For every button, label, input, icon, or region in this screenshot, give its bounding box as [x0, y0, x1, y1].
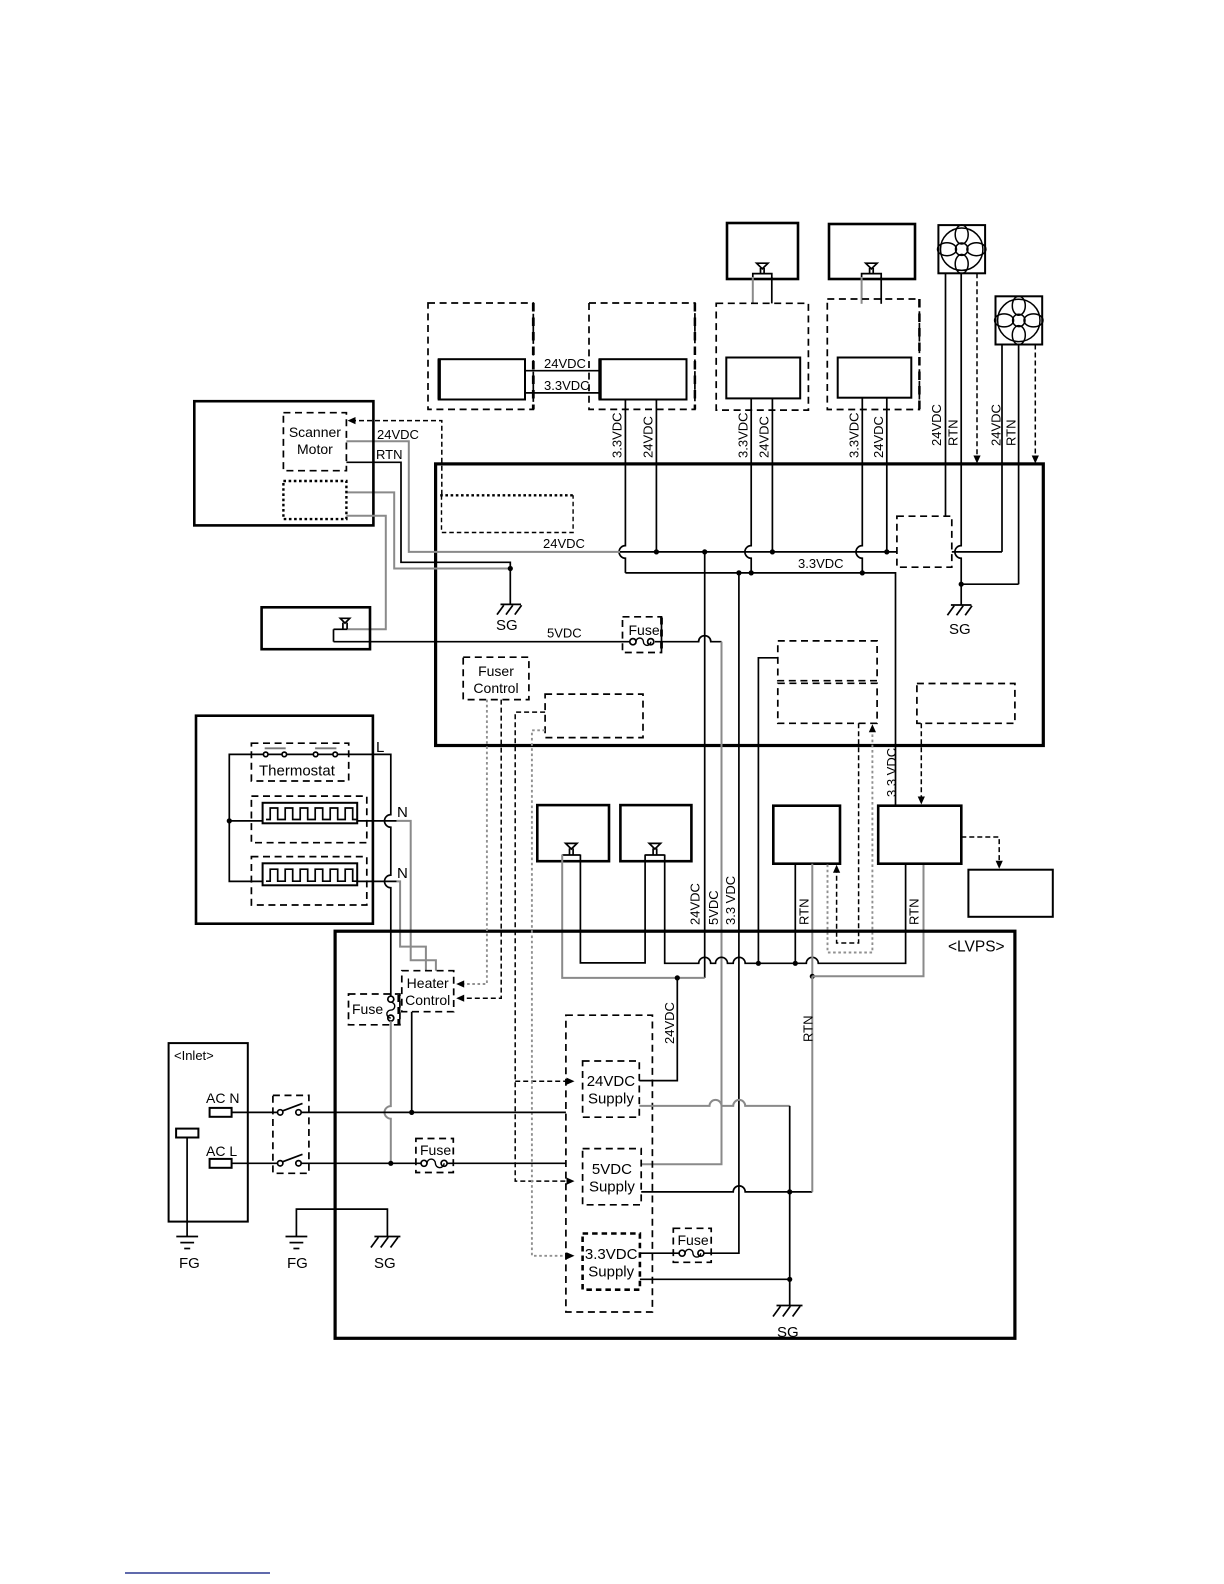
scanner unit box — [194, 401, 373, 525]
interlock box M2 — [620, 805, 691, 861]
switch dashed box — [273, 1095, 309, 1173]
connector box M3 — [773, 806, 840, 864]
svg-text:24VDC: 24VDC — [688, 883, 703, 925]
svg-text:SG: SG — [949, 621, 971, 638]
arrow into scanner motor — [348, 417, 356, 424]
junction scanner SG — [508, 566, 513, 571]
connector symbol CN-P — [340, 618, 349, 623]
wire 24VDC supply output — [639, 978, 677, 1081]
heavy dashed edge (B2 right) — [694, 303, 697, 409]
5VDC supply dashed box — [583, 1149, 642, 1205]
heater lamp 1 dashed box — [251, 796, 366, 843]
svg-text:Thermostat: Thermostat — [259, 763, 336, 780]
junction 3.3bus/B4 — [860, 570, 865, 575]
wire M1 24VDC (gray) — [562, 855, 705, 978]
main controller board box — [436, 464, 1044, 746]
board B1 inner — [439, 359, 525, 399]
dashed wire M4 to M5 — [961, 837, 999, 863]
wire 24VDC to LVPS (vertical) — [704, 552, 706, 978]
wire B1-B2 24VDC — [525, 370, 600, 372]
24VDC supply dashed box — [583, 1061, 640, 1117]
fan driver dashed box — [897, 516, 952, 567]
wire fan2 RTN link — [961, 583, 1018, 585]
svg-text:3.3 VDC: 3.3 VDC — [884, 748, 899, 797]
svg-text:Fuse: Fuse — [352, 1001, 383, 1017]
fan FAN1 frame — [938, 225, 985, 273]
heater2 N wire (gray) — [397, 881, 426, 970]
ground FG (chassis) — [286, 1237, 308, 1249]
dashed unit box B1 (far left) — [428, 303, 533, 409]
svg-text:24VDC: 24VDC — [544, 356, 586, 371]
3.3VDC supply dashed box — [583, 1234, 640, 1290]
svg-text:5VDC: 5VDC — [592, 1161, 632, 1178]
svg-text:24VDC: 24VDC — [757, 416, 772, 458]
svg-text:N: N — [397, 804, 408, 821]
wire B1-B2 3.3VDC — [525, 392, 600, 394]
wire J2 to unit B3 (gray) — [861, 277, 863, 304]
wire 24VDC bus with hops — [620, 551, 897, 553]
wire J2 to unit B3 (black) — [880, 277, 882, 304]
AC L terminal — [210, 1159, 232, 1168]
board B4 inner — [838, 358, 912, 398]
wire 5VDC — [334, 636, 722, 642]
wire 5VDC to LVPS (vertical gray) — [641, 642, 721, 1165]
dashed wire M3 to stacked-box (gray dotted) — [828, 729, 873, 953]
svg-text:RTN: RTN — [946, 420, 961, 446]
svg-text:5VDC: 5VDC — [706, 890, 721, 925]
heater lamp 2 dashed box — [251, 857, 366, 905]
junction SG fans — [959, 582, 964, 587]
wire 3.3VDC supply return — [640, 1278, 790, 1280]
wire FAN1 24VDC — [945, 273, 947, 516]
wire RTN vertical (gray) — [811, 976, 813, 1192]
svg-text:<Inlet>: <Inlet> — [174, 1048, 214, 1063]
switch SW-L — [278, 1154, 303, 1166]
svg-text:SG: SG — [496, 617, 518, 634]
inlet earth terminal — [176, 1129, 198, 1138]
stacked dashed box lower — [778, 683, 877, 723]
svg-text:N: N — [397, 865, 408, 882]
dashed unit box B2 — [589, 303, 695, 409]
wire 24VDC bus right of fan-driver box — [952, 551, 1002, 553]
arrow into 3.3VDC supply — [567, 1252, 575, 1259]
wire B2 24VDC down — [655, 400, 657, 552]
fuse F3 symbol — [679, 1249, 704, 1257]
wire FAN1 RTN — [960, 273, 962, 464]
dashed ctrl wire engine to heater-ctrl — [461, 700, 501, 999]
dashed ctrl wire fuser-ctrl to heater-ctrl (gray) — [461, 700, 487, 984]
heater-ctrl to ACN wire — [411, 1012, 413, 1113]
svg-text:RTN: RTN — [801, 1016, 816, 1042]
junction 24bus/B3 — [770, 549, 775, 554]
fuser internal left wire — [229, 754, 262, 881]
heater2 output wire — [357, 880, 396, 882]
svg-text:3.3VDC: 3.3VDC — [610, 412, 625, 458]
wire M1-M2 series link — [580, 855, 645, 963]
wire M3 return (gray) — [811, 864, 813, 977]
wire to heater1 — [229, 820, 262, 822]
dashed ctrl wire video box to M4 — [920, 723, 922, 799]
dashed wire stacked-box to M3 — [837, 723, 859, 943]
junction RTN/M3 — [793, 961, 798, 966]
svg-text:3.3VDC: 3.3VDC — [798, 556, 844, 571]
wire B2 3.3VDC down — [619, 400, 625, 573]
fuse F4 dashed box — [416, 1139, 453, 1173]
wire FAN2 24VDC — [1001, 345, 1003, 552]
junction ACL/fuser-L — [388, 1161, 393, 1166]
fuse F2 symbol (vertical) — [387, 996, 395, 1021]
svg-text:3.3VDC: 3.3VDC — [544, 378, 590, 393]
wire J1 to unit B2 (gray) — [752, 277, 754, 303]
dashed enable wire 24VDC/5VDC supplies — [515, 712, 569, 1181]
svg-text:24VDC: 24VDC — [641, 416, 656, 458]
svg-text:3.3 VDC: 3.3 VDC — [723, 876, 738, 925]
svg-text:24VDC: 24VDC — [662, 1002, 677, 1044]
wire 3.3VDC bus — [625, 573, 895, 806]
interlock box M1 — [537, 805, 609, 861]
svg-text:24VDC: 24VDC — [989, 404, 1004, 446]
board B3 inner — [726, 358, 800, 399]
svg-text:FG: FG — [287, 1255, 308, 1272]
scanner ccd dashed box — [283, 481, 346, 519]
wire B4 24VDC down — [886, 398, 888, 552]
svg-text:24VDC: 24VDC — [543, 536, 585, 551]
arrow into 5VDC supply — [567, 1178, 575, 1185]
wire M2 RTN bus — [665, 855, 906, 964]
svg-text:24VDC: 24VDC — [587, 1073, 636, 1090]
fuse F3 dashed box — [673, 1228, 711, 1262]
svg-text:Scanner: Scanner — [289, 424, 341, 440]
arrow into M3 — [833, 865, 840, 873]
svg-text:RTN: RTN — [907, 899, 922, 925]
junction ACN/heater-control — [409, 1110, 414, 1115]
junction 3.3bus/B3 — [749, 570, 754, 575]
sensor unit box J1 (top) — [727, 223, 798, 279]
fuse F4 symbol — [421, 1159, 447, 1168]
fan FAN2 blades — [995, 296, 1043, 344]
arrow into M5 — [996, 861, 1003, 869]
switch SW-N — [278, 1103, 303, 1115]
wire RTN chain to SG — [789, 1106, 791, 1306]
svg-text:AC L: AC L — [206, 1143, 237, 1159]
arrow into stacked box — [869, 724, 876, 732]
svg-text:Control: Control — [405, 992, 450, 1008]
heater lamp 1 element — [263, 803, 358, 824]
board B2 inner — [600, 359, 687, 399]
svg-text:Control: Control — [473, 680, 518, 696]
fan FAN2 frame — [996, 296, 1043, 344]
inlet box — [169, 1043, 248, 1222]
FG-SG bond wire — [296, 1209, 387, 1236]
connector symbol M2 — [649, 843, 660, 849]
wire connector to 5VDC — [333, 629, 335, 641]
dashed unit box B3 — [716, 303, 808, 410]
scanner RTN wire — [346, 462, 510, 604]
svg-text:3.3VDC: 3.3VDC — [585, 1246, 638, 1263]
fuse F2 dashed box (vertical) — [349, 994, 400, 1025]
svg-text:Heater: Heater — [407, 975, 449, 991]
ground SG (LVPS) — [773, 1306, 803, 1317]
junction 24VDC supply feed — [675, 975, 680, 980]
arrow into Heater Control (1) — [456, 980, 464, 987]
wire ACL switch-fuse — [301, 1162, 421, 1164]
svg-text:Fuse: Fuse — [678, 1232, 709, 1248]
junction M3 gray / RTN vertical — [810, 974, 815, 979]
svg-text:24VDC: 24VDC — [929, 404, 944, 446]
wire fan1 RTN to SG — [955, 464, 961, 584]
fuse F2 output wire (gray) — [385, 1021, 391, 1163]
dashed control wire FAN1 — [976, 273, 978, 457]
svg-text:Fuse: Fuse — [420, 1142, 451, 1158]
wire 3.3VDC to LVPS (vertical) — [704, 573, 739, 1253]
junction 3.3bus/LVPS — [736, 570, 741, 575]
junction RTN/3.3VDC return — [787, 1277, 792, 1282]
wire B3 24VDC down — [771, 398, 773, 552]
svg-text:L: L — [376, 739, 384, 756]
scanner motor dashed box — [283, 413, 346, 471]
thermostat contacts wire — [251, 753, 348, 755]
svg-text:AC N: AC N — [206, 1090, 239, 1106]
wire B3 3.3VDC down — [745, 398, 751, 573]
wire 24VDC supply RTN (gray) — [639, 1100, 789, 1106]
wire ACN inlet-switch — [232, 1111, 278, 1113]
svg-text:Fuse: Fuse — [629, 622, 660, 638]
svg-text:FG: FG — [179, 1255, 200, 1272]
wire J1 to unit B2 (black) — [771, 277, 773, 303]
heavy inner-board edges — [438, 359, 441, 399]
junction 24bus/B2 — [654, 549, 659, 554]
svg-text:24VDC: 24VDC — [871, 416, 886, 458]
Fuser Control dashed box — [463, 657, 529, 699]
svg-text:RTN: RTN — [797, 899, 812, 925]
svg-text:SG: SG — [374, 1255, 396, 1272]
heavy dashed edge (B1 right) — [532, 303, 535, 409]
sensor unit box J2 (top) — [829, 224, 915, 279]
footer rule — [125, 1572, 270, 1574]
connector symbol CN-J2 — [866, 263, 877, 269]
thermostat contact circles — [263, 752, 337, 757]
heater lamp 2 element — [263, 863, 358, 885]
CPU thick-dotted box — [440, 494, 573, 496]
arrow into Heater Control (2) — [456, 995, 464, 1002]
svg-text:<LVPS>: <LVPS> — [948, 939, 1005, 956]
svg-text:Motor: Motor — [297, 441, 333, 457]
connector box (panel) — [262, 607, 370, 649]
ground SG (controller left) — [497, 604, 522, 614]
connector symbol M1 — [566, 843, 577, 849]
wire ACL fuse-LVPS — [447, 1162, 566, 1164]
wire stacked-box to RTN bus — [758, 658, 777, 964]
box M5 — [968, 870, 1052, 917]
svg-text:Fuser: Fuser — [478, 663, 514, 679]
connector symbol CN-J1 — [757, 263, 768, 269]
wire ACL inlet-switch — [232, 1162, 278, 1164]
svg-text:RTN: RTN — [376, 447, 402, 462]
svg-text:3.3VDC: 3.3VDC — [736, 412, 751, 458]
junction 24bus/B4 — [884, 549, 889, 554]
junction RTN/stacked-box — [756, 961, 761, 966]
scanner signal wire 2 (gray, to connector box) — [346, 516, 385, 630]
arrow into 24VDC supply — [567, 1078, 575, 1085]
heater1 output wire — [357, 820, 396, 822]
ground SG (controller right) — [960, 584, 962, 605]
wire 5VDC supply return — [641, 1186, 812, 1192]
ground SG (chassis) — [371, 1237, 401, 1248]
dashed control wire FAN2 — [1034, 345, 1036, 458]
junction RTN/5VDC return — [787, 1189, 792, 1194]
junction 24bus/LVPS feed — [702, 549, 707, 554]
engine dashed box (wide) — [545, 694, 643, 738]
fuse F1 symbol — [630, 638, 654, 645]
fuser L wire — [349, 754, 391, 996]
LVPS box — [335, 931, 1015, 1338]
wire 3.3VDC supply output to fuse — [640, 1252, 679, 1254]
dashed branch to 24VDC supply — [515, 1080, 569, 1082]
svg-text:RTN: RTN — [1004, 420, 1019, 446]
thermostat dashed box — [251, 743, 348, 781]
arrow into controller (FAN1 ctrl) — [973, 456, 980, 464]
arrow into controller (FAN2 ctrl) — [1032, 456, 1039, 464]
heater1 N wire (gray) — [397, 821, 436, 971]
wire M3-M4 gray link — [812, 864, 923, 977]
scanner signal wire (gray) — [346, 492, 510, 568]
inlet earth wire — [186, 1138, 188, 1237]
thermostat closed bars — [265, 747, 337, 749]
wire ACN switch-LVPS — [301, 1111, 566, 1113]
fuser unit box — [196, 716, 373, 924]
svg-text:5VDC: 5VDC — [547, 626, 582, 641]
svg-text:Supply: Supply — [588, 1091, 634, 1108]
AC N terminal — [210, 1108, 232, 1117]
svg-text:3.3VDC: 3.3VDC — [847, 412, 862, 458]
wire FAN2 RTN — [1018, 345, 1020, 585]
fuse F1 dashed box — [623, 617, 662, 653]
junction heater left — [227, 818, 232, 823]
svg-text:24VDC: 24VDC — [377, 427, 419, 442]
dashed box right (video ctrl) — [917, 684, 1015, 724]
heavy dashed edge (B4 right) — [918, 299, 921, 410]
PSU outer dashed box — [566, 1015, 653, 1312]
wire M3 RTN (black) — [794, 864, 796, 964]
fan FAN1 blades — [938, 225, 986, 273]
wire B4 3.3VDC down — [856, 398, 862, 573]
ground FG (inlet) — [176, 1237, 198, 1249]
svg-text:Supply: Supply — [589, 1179, 635, 1196]
dashed unit box B4 — [827, 299, 919, 410]
dashed enable wire 3.3VDC supply (gray dotted) — [532, 730, 570, 1256]
connector box M4 — [878, 806, 961, 864]
arrow into M4 — [918, 797, 925, 805]
wire 24VDC bus (scanner feed, gray part) — [346, 441, 620, 552]
dashed signal wire controller to scanner motor — [352, 421, 442, 495]
Heater Control dashed box — [402, 971, 454, 1012]
svg-text:SG: SG — [777, 1324, 799, 1341]
stacked dashed box upper — [778, 641, 877, 681]
svg-text:Supply: Supply — [588, 1264, 634, 1281]
